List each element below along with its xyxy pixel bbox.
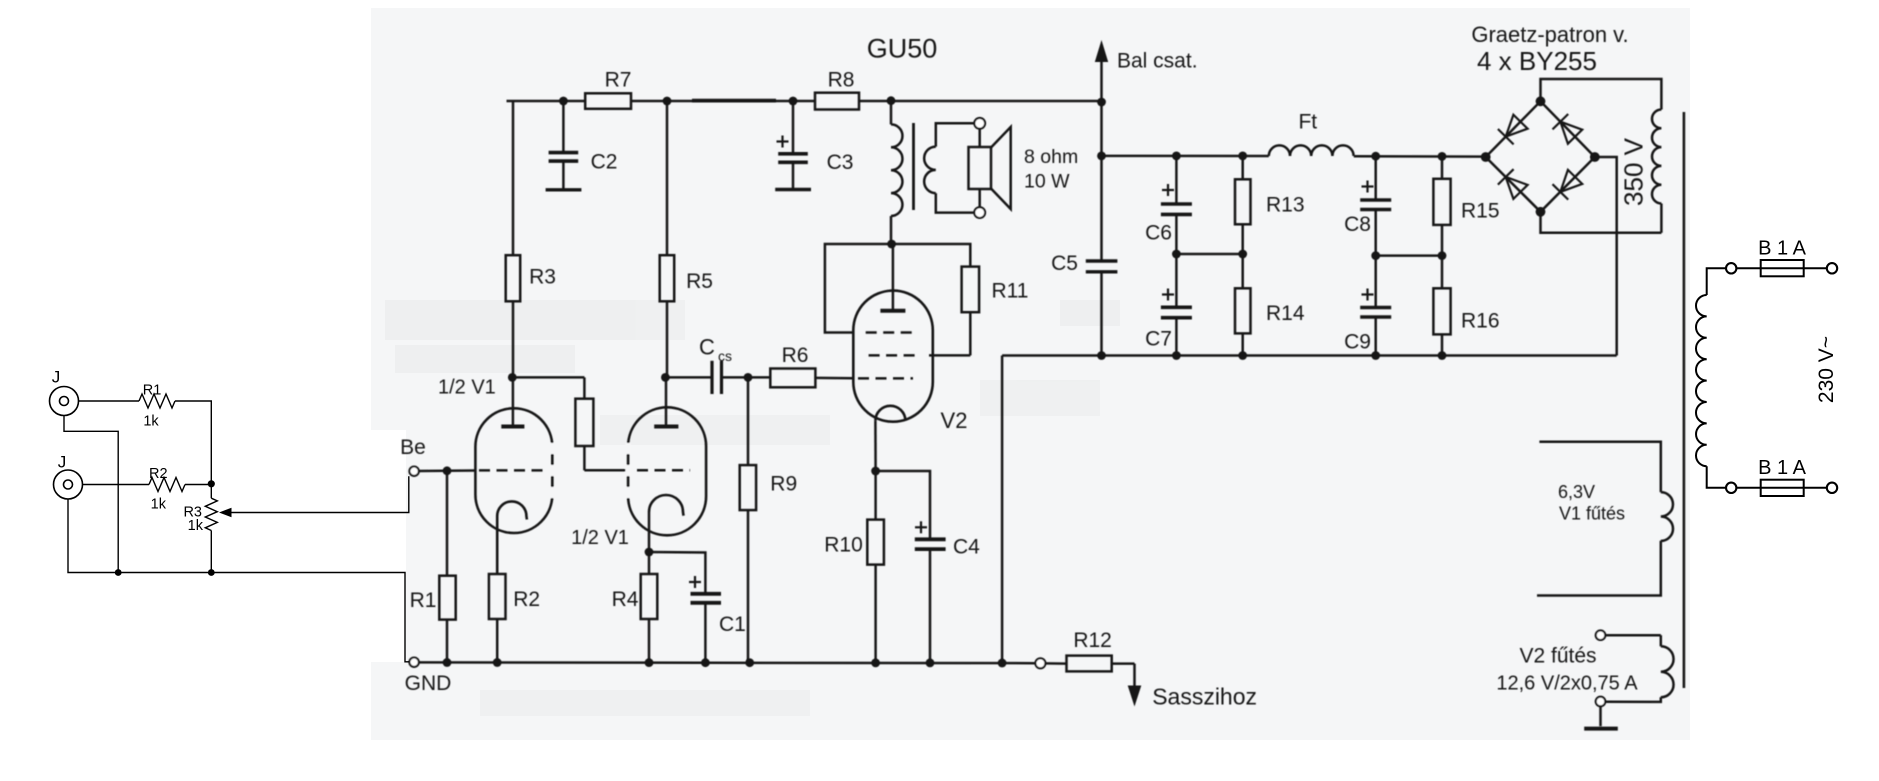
wire J1 to R1 [79, 400, 140, 402]
svg-text:J: J [58, 453, 67, 472]
wire Be to grid [419, 469, 476, 472]
node pot top [208, 480, 215, 487]
terminal GND [409, 658, 418, 667]
node input ground pot [208, 569, 215, 576]
node B+ top rail [507, 100, 586, 103]
resistor R1 input [139, 394, 175, 408]
svg-text:12,6 V/2x0,75 A: 12,6 V/2x0,75 A [1496, 673, 1638, 695]
wire V2 g2 loop [825, 244, 892, 333]
wire tube1 plate to coupling resistor [512, 376, 584, 379]
tube V1b anode [654, 425, 678, 429]
tube V1a cathode [497, 501, 527, 519]
svg-text:C8: C8 [1344, 213, 1371, 236]
connector J2 [54, 470, 83, 499]
capacitor C9 [1374, 256, 1377, 308]
resistor R9 [747, 377, 750, 465]
wire C5 bottom to ground drop [1002, 354, 1101, 357]
transformer T1 secondary winding [936, 123, 980, 146]
tube V1a envelope [475, 408, 552, 533]
transformer T1 primary winding [890, 101, 893, 124]
svg-text:R1: R1 [410, 589, 437, 612]
capacitor C8 [1371, 152, 1380, 161]
wire bridge bottom to HV winding [1541, 212, 1662, 233]
capacitor C4 [876, 471, 930, 539]
svg-text:10 W: 10 W [1024, 171, 1070, 193]
wire bridge right to bottom rail [1595, 157, 1617, 356]
svg-text:R1: R1 [143, 383, 162, 399]
svg-text:Graetz-patron v.: Graetz-patron v. [1471, 22, 1628, 47]
node bridge right corner [1590, 152, 1600, 162]
svg-text:C1: C1 [719, 613, 746, 636]
svg-text:R9: R9 [770, 473, 797, 496]
resistor R2 [496, 516, 499, 574]
diode D4 lower-right [1560, 170, 1582, 192]
fuse F2 bottom [1726, 483, 1736, 493]
svg-text:Be: Be [400, 436, 426, 459]
tube V1a grid [479, 469, 549, 472]
svg-text:J: J [52, 368, 61, 387]
svg-text:1/2 V1: 1/2 V1 [438, 377, 496, 399]
tube V2 grid g3 [866, 331, 916, 334]
scanned page area [371, 8, 1690, 740]
wire R2 to pot top [185, 484, 211, 486]
svg-text:8 ohm: 8 ohm [1024, 146, 1078, 168]
node C6 C7 junction [1172, 250, 1181, 259]
tube V2 envelope [853, 291, 933, 422]
terminal chassis [1035, 658, 1045, 668]
svg-text:1k: 1k [188, 518, 204, 534]
scan ghost smudges [385, 300, 1120, 716]
svg-text:R10: R10 [824, 534, 863, 557]
svg-text:V2 fűtés: V2 fűtés [1519, 645, 1596, 668]
svg-text:C7: C7 [1145, 328, 1172, 351]
svg-text:1/2 V1: 1/2 V1 [571, 527, 629, 549]
resistor R12 [1045, 662, 1066, 665]
transformer winding V2 heater [1605, 634, 1660, 637]
node tube V1b cathode junction [645, 548, 654, 557]
svg-text:R16: R16 [1461, 310, 1500, 333]
tube V2 anode [880, 309, 905, 313]
resistor R10 [874, 471, 877, 520]
resistor R8 [815, 93, 859, 110]
potentiometer R3 input [210, 484, 212, 498]
svg-text:V2: V2 [941, 408, 968, 433]
node input ground J1 [115, 569, 122, 576]
wire J2 to R2 [83, 484, 150, 486]
node bridge bottom corner [1536, 207, 1546, 217]
paint white patch near Be [371, 430, 406, 662]
svg-text:R11: R11 [992, 280, 1029, 303]
capacitor C3 [792, 101, 795, 154]
svg-text:R2: R2 [149, 466, 168, 482]
svg-text:230 V~: 230 V~ [1815, 336, 1838, 403]
svg-text:cs: cs [718, 348, 732, 364]
svg-text:Bal csat.: Bal csat. [1117, 50, 1198, 73]
diode D3 lower-left [1506, 177, 1528, 199]
capacitor C5 [1100, 101, 1103, 261]
node ground rail [419, 661, 1036, 664]
svg-text:Ft: Ft [1298, 111, 1317, 134]
terminal heater bottom [1596, 697, 1606, 707]
wiper arrow R3 [219, 508, 232, 518]
speaker terminal top [974, 118, 985, 129]
diode D1 upper-left [1506, 115, 1528, 137]
terminal heater top [1596, 630, 1606, 640]
inductor Ft [1269, 145, 1354, 156]
fuse F1 top [1726, 263, 1736, 273]
svg-text:R2: R2 [513, 588, 540, 611]
wire interstage to tube2 grid [584, 469, 630, 472]
svg-text:B 1 A: B 1 A [1758, 238, 1806, 260]
resistor R16 [1441, 256, 1444, 289]
svg-text:R15: R15 [1461, 200, 1500, 223]
tube V2 grid g1 [858, 377, 913, 380]
capacitor C1 [649, 552, 705, 594]
resistor R1 [446, 471, 449, 576]
node bridge left corner [1481, 152, 1491, 162]
svg-text:350 V: 350 V [1619, 137, 1649, 206]
svg-text:R4: R4 [612, 588, 639, 611]
tube V1b cathode [649, 495, 684, 516]
diode D2 upper-right [1560, 122, 1582, 144]
svg-text:R8: R8 [828, 69, 855, 92]
node bridge top corner [1536, 96, 1546, 106]
wire C6 R13 mid rail [1176, 253, 1242, 256]
svg-text:C4: C4 [953, 536, 980, 559]
wire top rail thick segment [692, 99, 776, 103]
svg-text:R14: R14 [1266, 302, 1305, 325]
speaker LS1 [978, 129, 981, 148]
svg-text:C2: C2 [591, 151, 618, 174]
node bottom filter rail [1102, 354, 1617, 357]
node V2 anode junction [887, 240, 896, 249]
svg-text:C9: C9 [1344, 331, 1371, 354]
node B+ filter rail [1102, 155, 1269, 158]
resistor R11 [892, 244, 971, 267]
transformer HV winding 350V [1652, 110, 1661, 204]
tube V1a anode [501, 425, 524, 429]
terminal Be [409, 467, 418, 476]
tube V1b envelope [628, 407, 706, 535]
svg-text:R3: R3 [529, 266, 556, 289]
rectifier bridge sides [1486, 101, 1595, 212]
svg-text:C: C [699, 335, 715, 360]
wire R1 to pot top [175, 401, 211, 484]
node R9 top junction [744, 373, 753, 382]
node Be junction [443, 466, 452, 475]
svg-text:C6: C6 [1145, 222, 1172, 245]
svg-text:R12: R12 [1073, 629, 1112, 652]
svg-text:1k: 1k [151, 497, 167, 513]
svg-text:V1 fűtés: V1 fűtés [1559, 504, 1625, 524]
capacitor C6 [1175, 156, 1178, 204]
tube V1b grid [637, 469, 690, 472]
svg-text:6,3V: 6,3V [1558, 482, 1595, 502]
resistor R7 [585, 93, 631, 109]
capacitor Ccs [664, 376, 667, 379]
wire input ground rail [68, 499, 409, 662]
node tube1 anode junction [508, 373, 517, 382]
resistor R5 [666, 101, 669, 255]
svg-text:B 1 A: B 1 A [1758, 457, 1806, 479]
connector J1 [50, 387, 79, 416]
svg-text:R5: R5 [686, 270, 713, 293]
speaker terminal bottom [974, 207, 985, 218]
tube V2 cathode [875, 406, 905, 421]
wire J1 ground [64, 416, 118, 573]
resistor coupling interstage [583, 377, 586, 398]
transformer T1 core [912, 123, 915, 210]
svg-text:C3: C3 [827, 151, 854, 174]
wire C8 R15 mid rail [1376, 254, 1442, 257]
resistor R14 [1241, 254, 1244, 288]
transformer winding 6.3V [1539, 442, 1660, 492]
wire ground drop vertical [1001, 356, 1004, 663]
resistor R6 [748, 376, 770, 379]
node C8 C9 junction [1371, 251, 1380, 260]
svg-text:GND: GND [405, 672, 452, 695]
svg-text:C5: C5 [1051, 252, 1078, 275]
capacitor C2 [562, 101, 565, 153]
capacitor C7 [1175, 254, 1178, 307]
wire bridge top to HV winding [1541, 79, 1662, 110]
transformer winding 230V primary [1707, 268, 1726, 295]
wire left vertical to R3 [512, 101, 515, 255]
resistor R13 [1238, 152, 1247, 161]
arrow Bal csat [1100, 60, 1103, 101]
resistor R3 [506, 255, 521, 301]
ground chassis [1599, 706, 1602, 726]
svg-text:R6: R6 [782, 344, 809, 367]
svg-text:R13: R13 [1266, 194, 1305, 217]
node V2 cathode junction [871, 467, 880, 476]
tube V2 grid g2 [869, 354, 918, 357]
transformer core [1683, 112, 1686, 688]
svg-text:1k: 1k [143, 414, 159, 430]
resistor R15 [1438, 152, 1447, 161]
svg-text:R7: R7 [605, 69, 632, 92]
svg-text:GU50: GU50 [867, 34, 938, 64]
svg-text:4 x BY255: 4 x BY255 [1477, 46, 1597, 76]
arrow Sasszihoz [1133, 664, 1136, 688]
resistor R2 input [149, 478, 185, 492]
svg-text:Sasszihoz: Sasszihoz [1152, 684, 1257, 710]
